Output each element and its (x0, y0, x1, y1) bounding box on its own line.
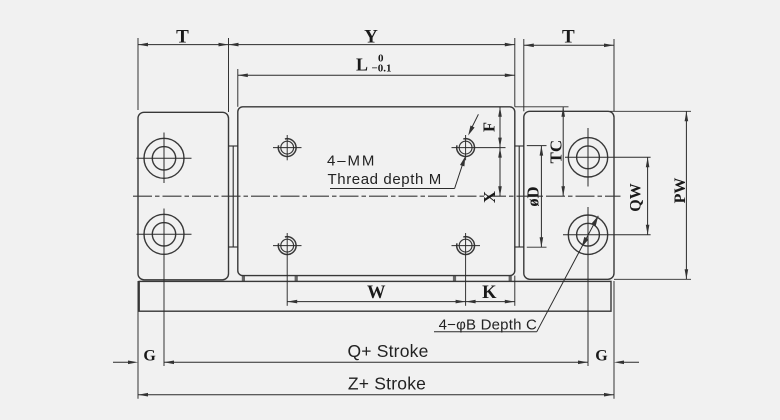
table outline (238, 107, 515, 276)
table foot 3 (453, 276, 456, 282)
label QW (628, 183, 645, 211)
dim L (238, 74, 515, 78)
svg-text:4−φB Depth C: 4−φB Depth C (439, 317, 537, 334)
thread hole bottom-right (457, 237, 475, 255)
dim phiD (540, 146, 544, 248)
svg-text:T: T (562, 27, 575, 48)
dim Z+Stroke (138, 393, 614, 397)
ext line left hole center bottom (163, 260, 165, 366)
hole right-bottom crosshair (563, 207, 651, 362)
label Q+ Stroke (347, 341, 428, 361)
hole right-top counterbore (568, 138, 607, 177)
thread hole bottom-left (278, 237, 296, 255)
ext line left plate right edge top (228, 38, 230, 112)
svg-text:W: W (367, 283, 386, 303)
label phiD (524, 186, 543, 206)
thread hole top-right crosshair (452, 135, 506, 160)
dim K (466, 300, 515, 304)
ext line table top right for TC (515, 106, 569, 108)
svg-text:PW: PW (672, 178, 689, 204)
dim W (287, 300, 465, 304)
svg-text:G: G (595, 348, 608, 365)
label Y (364, 26, 378, 47)
ext line PW bottom (614, 278, 691, 280)
right gap bottom tick (515, 246, 524, 248)
dim G left outside arrow (113, 361, 138, 365)
svg-text:T: T (176, 26, 189, 47)
svg-text:Z+ Stroke: Z+ Stroke (348, 374, 426, 394)
ext line PW top (610, 110, 691, 112)
hole left-bottom counterbore (144, 214, 184, 254)
ext line table left edge top (237, 69, 239, 107)
ext line right plate right edge top (613, 39, 615, 111)
hole right-bottom counterbore (568, 215, 607, 254)
label W (367, 283, 386, 303)
svg-text:X: X (480, 191, 499, 203)
dim F (498, 107, 502, 148)
svg-text:K: K (482, 283, 497, 303)
left end plate outline (138, 112, 229, 279)
svg-text:Q+ Stroke: Q+ Stroke (347, 341, 428, 361)
svg-text:øD: øD (524, 186, 543, 206)
label PW (672, 178, 689, 204)
label 4-MM (327, 153, 376, 170)
svg-text:L: L (356, 55, 368, 75)
table foot 2 (295, 276, 298, 282)
svg-text:4–MM: 4–MM (327, 153, 376, 170)
ext line phiD bottom tick (527, 246, 547, 248)
dim Y (229, 43, 515, 47)
ext line left body edge bottom (137, 281, 139, 399)
left gap bottom tick (229, 246, 238, 248)
hole left-top crosshair (137, 133, 192, 184)
ext line right hole center bottom (587, 362, 589, 366)
label Thread depth M (328, 171, 442, 188)
svg-text:−0.1: −0.1 (372, 63, 392, 75)
dim TC (561, 107, 565, 196)
centerline horizontal dash-dot (133, 195, 621, 197)
label Z+ Stroke (348, 374, 426, 394)
right gap top tick (515, 145, 524, 147)
label T left (176, 26, 189, 47)
label 4-phiB Depth C (439, 317, 537, 334)
dim T right (524, 44, 614, 48)
right gap body edge (518, 146, 520, 247)
svg-text:Y: Y (364, 26, 378, 47)
leader 4-MM to hole (455, 156, 466, 188)
thread hole top-right (457, 139, 475, 157)
ext line table right edge bottom (514, 276, 516, 306)
hole right-top crosshair (565, 128, 651, 187)
svg-text:Thread depth M: Thread depth M (328, 171, 442, 188)
ext line table right edge top (514, 38, 516, 107)
dim G right outside arrow (614, 361, 639, 365)
label G right (595, 348, 608, 365)
dim QW (646, 157, 650, 234)
left gap top tick (229, 145, 238, 147)
label X (480, 191, 499, 203)
dim Q+Stroke (164, 361, 588, 365)
label K (482, 283, 497, 303)
hole left-bottom crosshair (137, 209, 192, 261)
ext line right body edge bottom (613, 281, 615, 399)
left gap body edge (232, 146, 234, 247)
svg-text:G: G (143, 348, 156, 365)
underline Thread depth M (330, 188, 455, 190)
label G left (143, 348, 156, 365)
hole left-top counterbore (144, 138, 184, 178)
right end plate outline (524, 111, 614, 279)
svg-text:TC: TC (547, 140, 566, 164)
label TC (547, 140, 566, 164)
ext line right plate left edge top (523, 39, 525, 111)
leader arrow above top-right thread hole (468, 114, 478, 135)
dim X (498, 148, 502, 197)
thread hole bottom-right crosshair (452, 233, 481, 306)
leader 4-phiB to hole (537, 216, 599, 332)
svg-text:QW: QW (628, 183, 645, 211)
ext line phiD top tick (527, 145, 547, 147)
label L with tolerance (356, 53, 392, 75)
dim T left (138, 43, 229, 47)
thread hole top-left crosshair (273, 135, 302, 160)
thread hole top-left (278, 139, 296, 157)
underline 4-phiB Depth C (434, 331, 537, 333)
dim PW (685, 111, 689, 279)
thread hole bottom-left crosshair (273, 233, 302, 306)
ext line left edge top (137, 38, 139, 110)
label F (480, 122, 499, 132)
table foot 1 (242, 276, 245, 282)
svg-text:F: F (480, 122, 499, 132)
table foot 4 (509, 276, 512, 282)
label T right (562, 27, 575, 48)
base strip outline (139, 281, 611, 311)
